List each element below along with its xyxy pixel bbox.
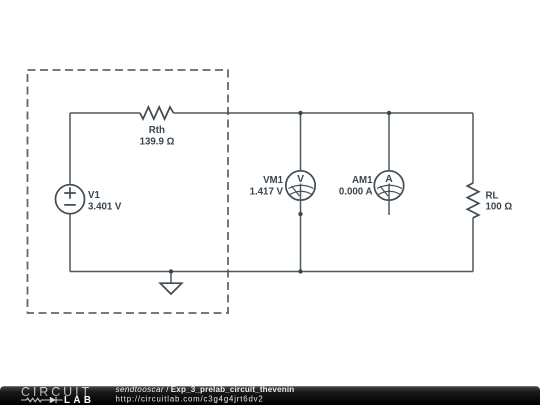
CircuitLab logo wordmark LAB bbox=[64, 395, 94, 405]
thevenin equivalent dashed boundary box bbox=[28, 70, 229, 313]
resistor Rth bbox=[140, 107, 174, 119]
wire AM1 top lead bbox=[388, 113, 390, 171]
svg-text:VM1: VM1 bbox=[263, 175, 284, 186]
label RL bbox=[486, 191, 513, 213]
node junction dot bottom wire / VM1 bbox=[298, 269, 302, 273]
label V1 bbox=[88, 190, 122, 213]
svg-text:100 Ω: 100 Ω bbox=[486, 202, 513, 213]
svg-text:LAB: LAB bbox=[64, 395, 94, 405]
wire right vertical below RL bbox=[472, 218, 474, 272]
wire VM1 top lead bbox=[300, 113, 302, 171]
svg-text:RL: RL bbox=[486, 191, 499, 202]
CircuitLab logo wordmark CIRCUIT bbox=[21, 385, 92, 399]
node junction dot top wire / VM1 bbox=[298, 111, 302, 115]
svg-text:139.9 Ω: 139.9 Ω bbox=[140, 136, 175, 147]
voltmeter VM1 bbox=[286, 171, 315, 272]
svg-text:1.417 V: 1.417 V bbox=[250, 186, 284, 197]
footer bar bbox=[0, 386, 540, 405]
label VM1 bbox=[250, 175, 284, 197]
wire top segment Rth to RL (node A) bbox=[174, 112, 474, 114]
node junction dot ground bbox=[169, 269, 173, 273]
wire top-left segment (node between V1 and Rth) bbox=[70, 112, 140, 114]
resistor RL bbox=[467, 183, 479, 218]
svg-text:V: V bbox=[297, 174, 304, 185]
svg-text:0.000 A: 0.000 A bbox=[339, 186, 373, 197]
svg-text:V1: V1 bbox=[88, 190, 100, 201]
wire left vertical through V1 bbox=[69, 113, 71, 272]
wire ground stem bbox=[170, 272, 172, 284]
svg-text:sendtooscar / Exp_3_prelab_cir: sendtooscar / Exp_3_prelab_circuit_theve… bbox=[116, 385, 295, 394]
svg-text:http://circuitlab.com/c3g4g4jr: http://circuitlab.com/c3g4g4jrt6dv2 bbox=[116, 395, 264, 404]
svg-text:A: A bbox=[385, 174, 393, 185]
node junction dot VM1 bottom terminal bbox=[298, 212, 302, 216]
ground bbox=[160, 283, 182, 294]
wire bottom segment (ground net) bbox=[70, 271, 473, 273]
voltage source V1 bbox=[56, 185, 85, 214]
label Rth bbox=[140, 125, 175, 147]
svg-text:AM1: AM1 bbox=[352, 175, 373, 186]
svg-text:3.401 V: 3.401 V bbox=[88, 202, 122, 213]
wire right vertical above RL bbox=[472, 113, 474, 183]
footer credit line 1 bbox=[116, 385, 295, 394]
label AM1 bbox=[339, 175, 373, 197]
svg-text:Rth: Rth bbox=[149, 125, 165, 136]
ammeter AM1 bbox=[374, 171, 403, 215]
CircuitLab logo resistor+diode glyph bbox=[21, 397, 63, 403]
node junction dot top wire / AM1 bbox=[387, 111, 391, 115]
footer credit line 2 (url text) bbox=[116, 395, 264, 404]
